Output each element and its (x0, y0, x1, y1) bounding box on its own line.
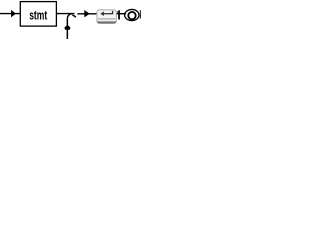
return glyph left arrowhead (100, 11, 104, 16)
wire: line into keycap (77, 13, 96, 15)
wire: hanging down-arc fragment (clipped) (72, 15, 76, 17)
svg-text:stmt: stmt (29, 8, 47, 23)
return glyph riser (112, 11, 114, 14)
keycap bottom shadow band (97, 21, 116, 23)
return glyph bar (102, 13, 113, 15)
wire: rail top arc merging right (67, 14, 72, 19)
end terminal outer circle (clipped below) (125, 9, 139, 20)
wire: line from keycap into end circle (117, 13, 126, 15)
box stmt (20, 2, 56, 27)
background (0, 0, 143, 39)
keycap enter key body (97, 10, 117, 23)
arrowhead up on rail (64, 25, 70, 30)
wire: entry main line (0, 13, 75, 15)
end terminal inner circle (128, 12, 135, 19)
label 1 (117, 10, 120, 20)
wire: loop return rail (66, 19, 68, 39)
clipped element at right edge (140, 10, 141, 18)
keycap inner shadow line (98, 18, 115, 20)
start arrowhead (11, 10, 16, 18)
arrowhead before keycap (84, 10, 89, 17)
